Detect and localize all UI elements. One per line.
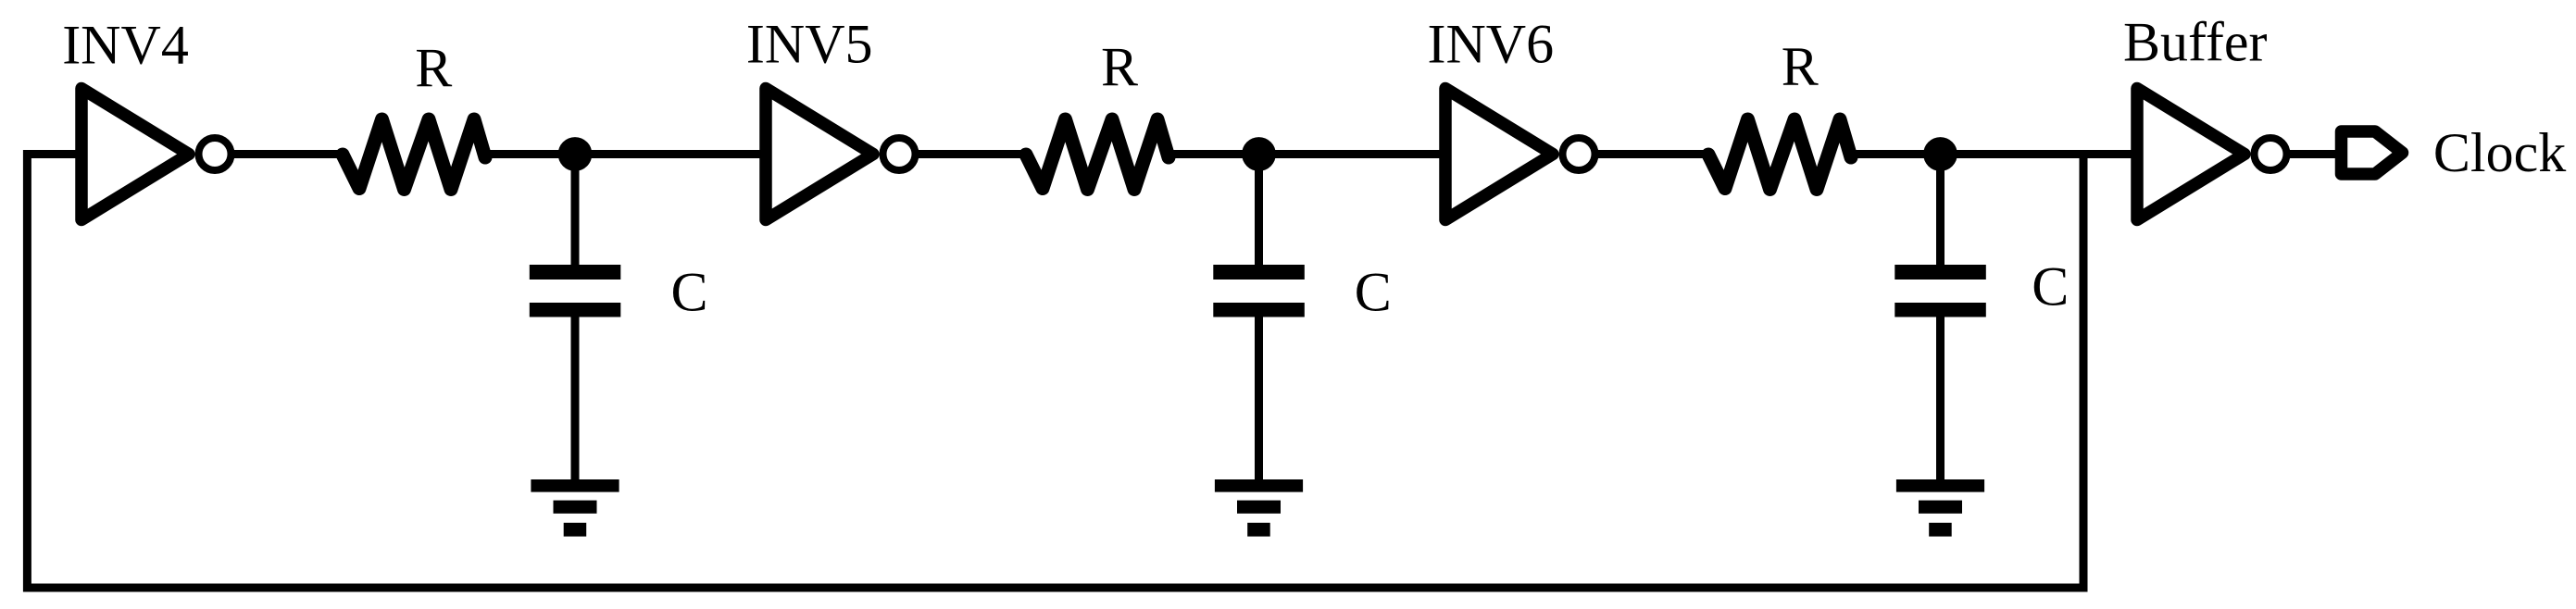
ground D bar3 <box>1929 523 1952 537</box>
wire node to capacitor A <box>571 155 580 269</box>
ground D bar2 <box>1919 501 1962 514</box>
inverter INV4 triangle <box>81 89 189 220</box>
resistor R stage3 <box>1708 119 1851 190</box>
ground D bar1 <box>1896 479 1984 492</box>
capacitor B top plate <box>1213 265 1305 280</box>
wire R to Buffer input through node D <box>1849 150 2139 158</box>
capacitor A top plate <box>530 265 621 280</box>
wire capacitor B to ground <box>1255 314 1263 483</box>
wire INV4 output to R <box>232 150 344 158</box>
svg-text:R: R <box>1782 36 1819 97</box>
ground B bar1 <box>1215 479 1303 492</box>
output port Clock pin <box>2342 131 2403 174</box>
ground B bar2 <box>1237 501 1281 514</box>
node at A <box>558 137 593 171</box>
inverter INV5 output bubble <box>883 138 916 170</box>
svg-text:Buffer: Buffer <box>2123 12 2268 73</box>
wire node to capacitor B <box>1255 155 1263 269</box>
wire capacitor D to ground <box>1936 314 1945 483</box>
svg-text:C: C <box>1355 262 1392 323</box>
node at D <box>1923 137 1957 171</box>
svg-text:INV4: INV4 <box>62 15 189 76</box>
inverter INV6 triangle <box>1445 89 1553 220</box>
svg-text:R: R <box>415 38 452 99</box>
ground A bar2 <box>554 501 597 514</box>
svg-text:R: R <box>1101 37 1138 98</box>
wire Buffer output to port <box>2288 150 2343 158</box>
svg-text:C: C <box>2032 256 2069 317</box>
node at B <box>1242 137 1276 171</box>
capacitor D top plate <box>1894 265 1986 280</box>
buffer U1 triangle <box>2137 89 2245 220</box>
wire INV5 output to R <box>917 150 1028 158</box>
wire R to INV6 input through node B <box>1167 150 1447 158</box>
capacitor A bottom plate <box>530 303 621 317</box>
svg-text:INV5: INV5 <box>746 14 873 75</box>
inverter INV6 output bubble <box>1563 138 1595 170</box>
svg-text:C: C <box>671 262 708 323</box>
wire INV6 output to R <box>1596 150 1710 158</box>
wire R to INV5 input through node A <box>483 150 768 158</box>
ground B bar3 <box>1247 523 1270 537</box>
ground A bar3 <box>564 523 587 537</box>
wire feedback loop (left, bottom, right) <box>27 155 2083 589</box>
capacitor B bottom plate <box>1213 303 1305 317</box>
inverter INV4 output bubble <box>199 138 231 170</box>
ground A bar1 <box>531 479 619 492</box>
svg-text:INV6: INV6 <box>1428 14 1555 75</box>
wire capacitor A to ground <box>571 314 580 483</box>
svg-text:Clock: Clock <box>2433 122 2566 183</box>
wire node to capacitor D <box>1936 155 1945 269</box>
capacitor D bottom plate <box>1894 303 1986 317</box>
resistor R stage1 <box>343 119 485 190</box>
resistor R stage2 <box>1026 119 1169 190</box>
inverter INV5 triangle <box>766 89 873 220</box>
buffer U1 output bubble <box>2255 138 2287 170</box>
